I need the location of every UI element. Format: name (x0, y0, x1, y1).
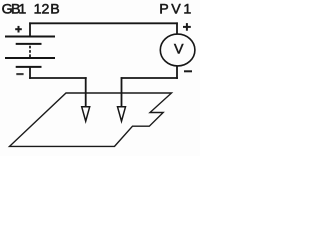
plus sign voltmeter (183, 23, 191, 31)
svg-text:V: V (171, 1, 181, 17)
label PV1 (159, 1, 191, 17)
minus sign voltmeter (184, 70, 192, 72)
label GB1 12 В (2, 1, 60, 17)
wire left bottom bus (29, 77, 86, 79)
svg-text:P: P (159, 1, 168, 17)
metal surface plate (10, 93, 172, 146)
svg-text:В: В (50, 1, 59, 17)
svg-text:V: V (174, 41, 184, 57)
battery GB1 (5, 37, 55, 67)
svg-text:1: 1 (18, 1, 26, 17)
voltmeter PV1 (160, 34, 195, 66)
probe arrow 2 (118, 77, 126, 121)
probe arrow 1 (82, 77, 90, 121)
svg-text:12: 12 (34, 1, 50, 17)
wire battery top stem (29, 22, 31, 37)
wire right bottom bus (121, 77, 178, 79)
wire voltmeter bottom stem (176, 66, 178, 79)
svg-text:1: 1 (183, 1, 191, 17)
wire battery bottom stem (29, 67, 31, 79)
minus sign battery (16, 73, 23, 75)
wire top bus (29, 22, 178, 24)
plus sign battery (15, 26, 22, 33)
wire voltmeter top stem (176, 22, 178, 34)
